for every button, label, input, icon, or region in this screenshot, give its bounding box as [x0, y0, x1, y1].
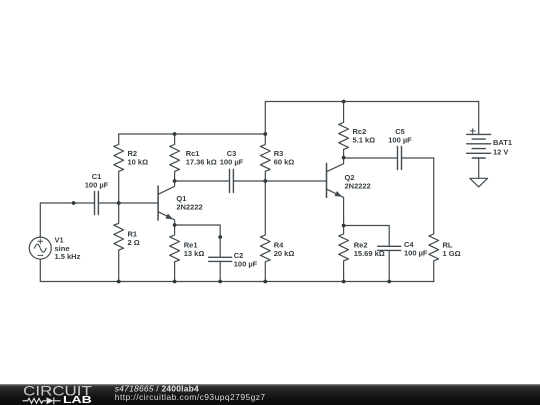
junction: R4 bottom rail	[263, 280, 267, 284]
junction: Rc2 top rail	[342, 100, 346, 104]
svg-text:100 µF: 100 µF	[404, 249, 428, 258]
wire: C2 bottom to ground rail	[219, 261, 221, 281]
junction: Rc1 top rail	[173, 132, 177, 136]
junction: input node dot	[72, 201, 76, 205]
resistor R4	[260, 181, 270, 282]
wire: C4 bottom to ground rail	[388, 250, 390, 281]
svg-text:1 GΩ: 1 GΩ	[443, 249, 461, 258]
wire: Q2 emitter to C4 top	[344, 226, 390, 247]
svg-text:60 kΩ: 60 kΩ	[274, 158, 295, 167]
battery BAT1	[467, 102, 491, 159]
footer bar	[0, 384, 540, 405]
svg-text:100 µF: 100 µF	[85, 181, 109, 190]
resistor R1	[114, 203, 124, 282]
svg-text:5.1 kΩ: 5.1 kΩ	[353, 136, 376, 145]
ground	[470, 158, 488, 187]
junction: R1 bottom rail	[117, 280, 121, 284]
logo resistor-diode glyph	[23, 397, 61, 404]
resistor Rc2	[339, 102, 349, 159]
svg-text:2N2222: 2N2222	[176, 203, 202, 212]
wire: Q2 collector node to C5 left	[344, 157, 398, 159]
svg-text:C4: C4	[404, 240, 414, 249]
junction: Q1 collector node	[173, 179, 177, 183]
transistor Q2	[327, 158, 344, 226]
logo CircuitLab wordmark	[23, 384, 92, 405]
junction: Q1 emitter node	[173, 223, 177, 227]
wire: Q1 emitter to C2 top	[175, 225, 221, 257]
svg-text:2 Ω: 2 Ω	[128, 238, 140, 247]
svg-text:13 kΩ: 13 kΩ	[184, 249, 205, 258]
svg-text:1.5 kHz: 1.5 kHz	[55, 252, 81, 261]
junction: base node Q1	[117, 201, 121, 205]
junction: Re2 bottom rail	[342, 280, 346, 284]
capacitor C4	[378, 246, 401, 250]
wire: C5 right to RL top	[402, 157, 434, 159]
svg-text:100 µF: 100 µF	[220, 158, 244, 167]
resistor RL	[429, 158, 439, 282]
svg-text:2N2222: 2N2222	[345, 181, 371, 190]
svg-text:BAT1: BAT1	[493, 138, 512, 147]
wire: V1 top to C1 left	[40, 203, 94, 237]
svg-text:15.69 kΩ: 15.69 kΩ	[354, 249, 385, 258]
resistor R2	[114, 134, 124, 203]
junction: C2 bottom rail	[218, 280, 222, 284]
wire: supply rail y=101.5	[265, 102, 478, 135]
svg-text:10 kΩ: 10 kΩ	[128, 158, 149, 167]
junction: R3 top	[263, 132, 267, 136]
svg-text:100 µF: 100 µF	[388, 136, 412, 145]
wire: C1 right to Q1 base	[98, 202, 158, 204]
wire: bias rail y=134 R2 to R3	[119, 133, 266, 135]
svg-text:20 kΩ: 20 kΩ	[274, 249, 295, 258]
junction: Q2 base node	[263, 179, 267, 183]
capacitor C1	[95, 192, 99, 215]
capacitor C5	[398, 147, 402, 170]
junction: Q2 emitter node	[342, 224, 346, 228]
svg-text:100 µF: 100 µF	[234, 260, 258, 269]
resistor Rc1	[170, 134, 180, 181]
capacitor C3	[230, 170, 234, 193]
capacitor C2	[209, 257, 232, 261]
resistor R3	[260, 134, 270, 181]
svg-text:17.36 kΩ: 17.36 kΩ	[186, 158, 217, 167]
wire: Q1 collector node to C3 left	[175, 180, 230, 182]
wire: C3 right to Q2 base	[233, 180, 326, 182]
svg-text:LAB: LAB	[63, 395, 92, 405]
junction: C2 branch node	[218, 235, 222, 239]
voltage source V1	[29, 237, 51, 259]
svg-text:12 V: 12 V	[493, 148, 508, 157]
svg-text:http://circuitlab.com/c93upq27: http://circuitlab.com/c93upq2795gz7	[115, 392, 266, 402]
resistor Re2	[339, 226, 349, 282]
resistor Re1	[170, 225, 180, 282]
junction: Q2 collector node	[342, 156, 346, 160]
wire: bottom ground rail from V1 to RL	[40, 259, 433, 281]
junction: C4 bottom rail	[387, 280, 391, 284]
transistor Q1	[158, 181, 175, 225]
junction: Re1 bottom rail	[173, 280, 177, 284]
footer title text	[115, 384, 266, 402]
